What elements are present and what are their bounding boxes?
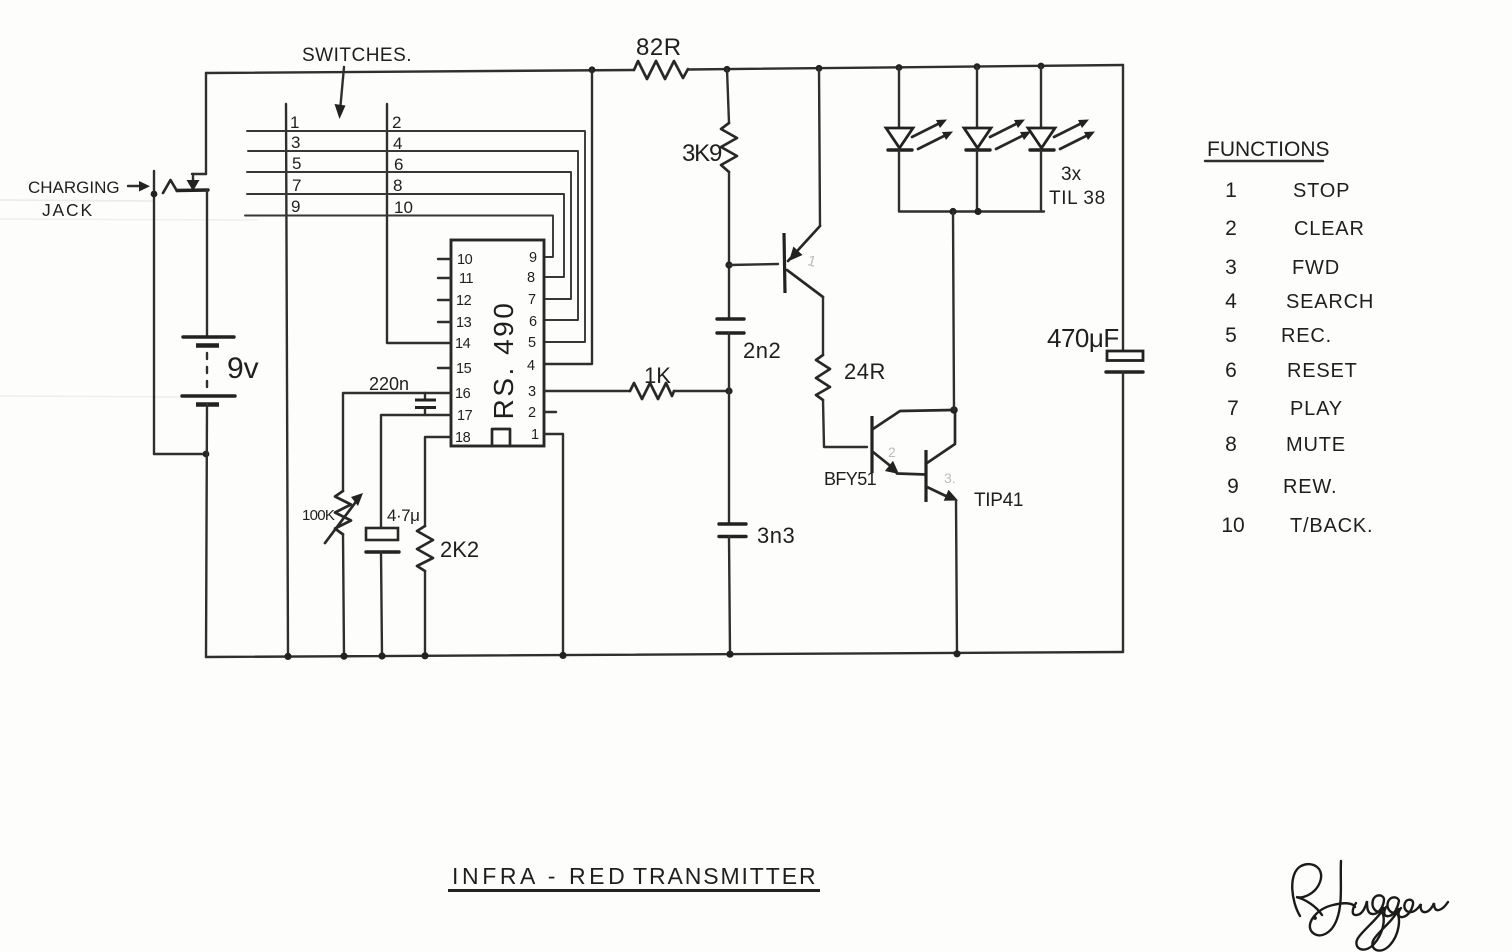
svg-text:9v: 9v xyxy=(227,352,259,385)
wire: LED bus to Q2/Q3 collectors xyxy=(953,212,954,411)
wire: IC pin 1 to ground rail xyxy=(545,434,567,659)
switch matrix row numbers left xyxy=(290,113,301,216)
LED D1 xyxy=(886,120,953,212)
wire: switch row 3-4 to IC pin 6 xyxy=(248,151,578,320)
capacitor 220n xyxy=(369,374,436,415)
svg-text:1K: 1K xyxy=(644,363,671,388)
wire: 2K2 to ground rail xyxy=(421,571,428,659)
svg-text:7: 7 xyxy=(528,292,536,308)
svg-text:9: 9 xyxy=(1227,475,1239,498)
svg-text:3: 3 xyxy=(528,384,536,400)
IC U1 RS.490 xyxy=(451,240,544,446)
functions list names xyxy=(1281,180,1374,537)
svg-text:5: 5 xyxy=(528,335,536,351)
svg-text:INFRA - RED: INFRA - RED xyxy=(452,863,628,889)
wire: 24R to Q2 base xyxy=(823,400,867,447)
transistor Q3 TIP41 xyxy=(926,410,1023,511)
svg-text:11: 11 xyxy=(459,271,473,287)
svg-text:SEARCH: SEARCH xyxy=(1286,291,1374,313)
svg-text:T/BACK.: T/BACK. xyxy=(1290,515,1373,537)
svg-text:2K2: 2K2 xyxy=(440,537,479,562)
wire: 3n3 to ground rail xyxy=(726,537,733,658)
svg-text:2: 2 xyxy=(528,405,536,421)
svg-text:3x: 3x xyxy=(1061,164,1082,185)
svg-text:2n2: 2n2 xyxy=(743,338,781,363)
wire: switch row 5-6 to IC pin 7 xyxy=(247,172,571,299)
wire: IC pin 18 net xyxy=(425,437,451,526)
signature R. Duggan xyxy=(1292,861,1448,951)
wire: left rail jack to battery xyxy=(206,190,208,337)
wire: left rail battery to bottom rail xyxy=(206,404,207,657)
resistor 3K9 xyxy=(682,123,737,172)
wire: base node to Q1 xyxy=(729,264,778,265)
wire: top supply rail (right of 82R) xyxy=(688,65,1123,70)
wire: 100K to ground rail xyxy=(340,534,347,660)
node: switch bar ground junction xyxy=(284,653,291,660)
wire: top rail to 3K9 xyxy=(724,66,731,123)
svg-text:REW.: REW. xyxy=(1283,476,1337,498)
LED D2 xyxy=(964,120,1031,212)
wire: top supply rail (left of 82R) xyxy=(206,70,634,73)
faint pencil mark 3 xyxy=(944,470,956,486)
svg-text:6: 6 xyxy=(1225,359,1237,382)
wire: charging jack tip branch xyxy=(151,171,206,454)
svg-text:8: 8 xyxy=(527,270,535,286)
svg-text:5: 5 xyxy=(1225,324,1237,347)
svg-text:STOP: STOP xyxy=(1293,180,1350,202)
svg-text:100K: 100K xyxy=(302,507,335,524)
wire: Q1 collector to 24R xyxy=(822,297,824,355)
svg-text:2: 2 xyxy=(1225,217,1237,240)
transistor Q1 (PNP) xyxy=(784,226,823,297)
resistor 1K xyxy=(630,363,674,399)
LED D3 xyxy=(1028,120,1095,212)
resistor 2K2 xyxy=(417,526,479,571)
IC U1 pin 2 stub xyxy=(545,411,556,413)
resistor 82R in top rail xyxy=(634,34,688,79)
wire: switch row 9-10 to IC pin 9 xyxy=(245,216,553,258)
svg-text:18: 18 xyxy=(455,430,471,446)
svg-text:15: 15 xyxy=(456,361,472,377)
svg-text:2: 2 xyxy=(888,444,896,460)
wire: 1K to 2n2/3n3 node xyxy=(674,387,733,394)
svg-text:9: 9 xyxy=(529,250,537,266)
svg-text:12: 12 xyxy=(456,293,472,309)
capacitor 3n3 xyxy=(719,523,795,548)
paper ruling artifacts xyxy=(0,200,258,397)
label: FUNCTIONS heading xyxy=(1205,138,1330,161)
svg-text:17: 17 xyxy=(457,408,473,424)
title: INFRA-RED TRANSMITTER xyxy=(448,863,820,891)
svg-text:JACK: JACK xyxy=(42,200,94,220)
wire: 2n2 to 3n3 xyxy=(728,333,730,524)
wire: top rail to LED D1 xyxy=(896,64,903,127)
label: 3x TIL38 xyxy=(1049,164,1106,209)
wire: V+ rail to IC pin 4 xyxy=(545,66,595,364)
functions list numbers xyxy=(1221,179,1244,537)
svg-text:REC.: REC. xyxy=(1281,325,1332,347)
svg-text:7: 7 xyxy=(292,176,301,195)
svg-text:6: 6 xyxy=(529,314,537,330)
svg-text:14: 14 xyxy=(455,336,471,352)
wire: switch row 7-8 to IC pin 8 xyxy=(247,194,564,277)
wire: top rail to LED D3 xyxy=(1038,63,1045,127)
wire: IC pin 16 net xyxy=(343,393,451,491)
svg-text:FUNCTIONS: FUNCTIONS xyxy=(1207,138,1330,161)
svg-text:8: 8 xyxy=(393,176,402,195)
node: Q2/Q3 collector junction xyxy=(950,406,958,414)
capacitor 470uF xyxy=(1047,323,1143,372)
svg-text:CHARGING: CHARGING xyxy=(28,178,120,197)
svg-text:SWITCHES.: SWITCHES. xyxy=(302,45,412,66)
capacitor 2n2 xyxy=(717,319,781,363)
svg-text:3n3: 3n3 xyxy=(757,523,795,548)
svg-text:TIP41: TIP41 xyxy=(974,490,1023,511)
switch matrix row numbers right xyxy=(392,113,413,217)
wire: IC pin 3 to 1K xyxy=(545,390,630,392)
svg-text:FWD: FWD xyxy=(1292,257,1340,279)
svg-text:3: 3 xyxy=(1225,256,1237,279)
svg-text:16: 16 xyxy=(455,386,471,402)
wire: Q3 emitter to ground rail xyxy=(953,500,960,657)
IC U1 right pin numbers xyxy=(527,250,539,443)
label: CHARGING JACK with arrow xyxy=(28,178,150,220)
battery B1 9v xyxy=(182,337,259,405)
wire: LED cathode bus xyxy=(899,208,1044,215)
wire: IC pin 17 net xyxy=(381,415,451,528)
svg-text:4·7μ: 4·7μ xyxy=(387,506,419,525)
svg-text:8: 8 xyxy=(1225,433,1237,456)
svg-text:PLAY: PLAY xyxy=(1290,398,1343,420)
resistor 24R xyxy=(816,355,886,400)
svg-text:1: 1 xyxy=(531,427,539,443)
faint pencil mark 1 xyxy=(806,252,818,271)
svg-text:RESET: RESET xyxy=(1287,360,1358,382)
svg-text:13: 13 xyxy=(456,315,472,331)
wire: bottom ground rail xyxy=(206,652,1123,657)
svg-text:TRANSMITTER: TRANSMITTER xyxy=(633,863,817,889)
wire: top rail to LED D2 xyxy=(974,63,981,127)
svg-text:MUTE: MUTE xyxy=(1286,434,1346,456)
svg-text:10: 10 xyxy=(1221,514,1244,537)
svg-text:RS. 490: RS. 490 xyxy=(488,301,519,420)
svg-text:10: 10 xyxy=(394,198,413,217)
svg-text:3K9: 3K9 xyxy=(682,140,722,167)
svg-text:24R: 24R xyxy=(844,359,886,384)
svg-text:9: 9 xyxy=(291,197,300,216)
switch matrix left bus bar xyxy=(286,104,288,657)
svg-text:5: 5 xyxy=(292,154,301,173)
wire: right rail top segment xyxy=(1122,65,1124,351)
wire: right rail bottom segment xyxy=(1122,372,1124,652)
svg-text:1: 1 xyxy=(1225,179,1237,202)
wire: left supply rail upper segment xyxy=(205,73,207,174)
svg-text:220n: 220n xyxy=(369,374,409,394)
svg-text:1: 1 xyxy=(290,113,299,132)
svg-text:470μF: 470μF xyxy=(1047,323,1119,353)
label: SWITCHES with arrow xyxy=(302,45,412,119)
svg-text:TIL 38: TIL 38 xyxy=(1049,188,1106,209)
wire: switch row 1-2 to IC pin 5 xyxy=(247,131,585,342)
switch matrix right bus bar (to IC pin 14) xyxy=(387,104,451,343)
svg-text:BFY51: BFY51 xyxy=(824,469,877,489)
svg-text:10: 10 xyxy=(457,252,473,268)
wire: 47u to ground rail xyxy=(378,552,385,660)
capacitor 47u xyxy=(366,506,419,552)
svg-text:3.: 3. xyxy=(944,470,956,486)
charging jack switch symbol xyxy=(163,174,208,193)
faint pencil mark 2 xyxy=(888,444,896,460)
svg-text:3: 3 xyxy=(291,133,300,152)
svg-text:82R: 82R xyxy=(636,34,682,61)
svg-text:4: 4 xyxy=(393,134,402,153)
IC U1 left pin numbers xyxy=(455,252,473,446)
wire: top rail to Q1 emitter xyxy=(816,65,823,226)
svg-text:4: 4 xyxy=(1225,290,1237,313)
potentiometer 100K xyxy=(302,491,363,543)
svg-text:CLEAR: CLEAR xyxy=(1294,218,1365,240)
wire: 3K9 to transistor base node xyxy=(725,172,732,319)
transistor Q2 BFY51 xyxy=(824,410,953,489)
svg-text:2: 2 xyxy=(392,113,401,132)
node: jack/battery junction xyxy=(203,451,210,458)
IC U1 left pin stubs 10,11,12,13,15 xyxy=(438,259,451,368)
svg-text:7: 7 xyxy=(1227,397,1239,420)
svg-text:4: 4 xyxy=(527,358,535,374)
svg-text:6: 6 xyxy=(394,155,403,174)
